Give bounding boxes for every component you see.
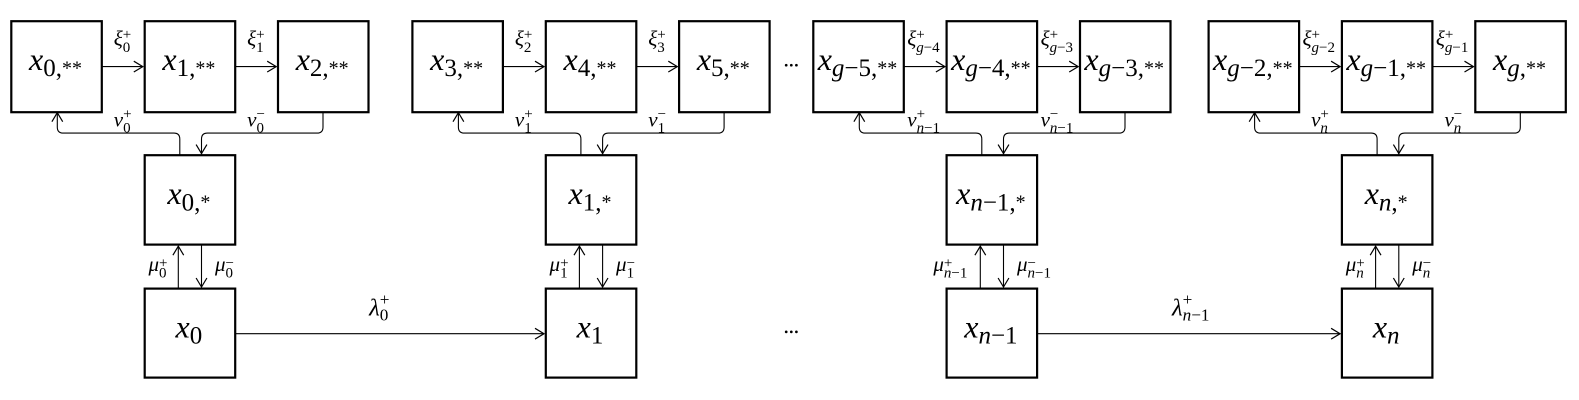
svg-text:ξ: ξ <box>648 27 657 51</box>
svg-text:μ: μ <box>615 252 627 276</box>
svg-text:g−4: g−4 <box>916 40 940 56</box>
svg-text:0: 0 <box>380 306 389 325</box>
svg-text:1: 1 <box>524 121 532 137</box>
svg-text:x2,**: x2,** <box>295 41 349 82</box>
svg-text:ξ: ξ <box>515 27 524 51</box>
svg-text:xn−1: xn−1 <box>963 309 1017 350</box>
svg-text:0: 0 <box>123 121 131 137</box>
svg-text:n−1: n−1 <box>1050 121 1073 137</box>
svg-text:0: 0 <box>226 266 234 282</box>
svg-text:0: 0 <box>123 40 131 56</box>
svg-text:μ: μ <box>214 252 226 276</box>
svg-text:μ: μ <box>147 252 159 276</box>
svg-text:x1,**: x1,** <box>161 41 215 82</box>
svg-text:x0,*: x0,* <box>166 175 210 216</box>
svg-text:xg−2,**: xg−2,** <box>1212 41 1293 82</box>
svg-text:n: n <box>1454 121 1462 137</box>
svg-text:ξ: ξ <box>1303 27 1312 51</box>
svg-text:μ: μ <box>1016 252 1028 276</box>
svg-text:xg−1,**: xg−1,** <box>1345 41 1426 82</box>
svg-text:λ: λ <box>1171 294 1183 321</box>
svg-text:xg−3,**: xg−3,** <box>1083 41 1164 82</box>
svg-text:1: 1 <box>256 40 264 56</box>
svg-text:g−1: g−1 <box>1445 40 1468 56</box>
svg-text:xn−1,*: xn−1,* <box>955 175 1026 216</box>
svg-text:x0: x0 <box>175 309 203 350</box>
svg-text:x5,**: x5,** <box>696 41 750 82</box>
svg-text:λ: λ <box>368 294 380 321</box>
svg-text:xn: xn <box>1372 309 1400 350</box>
svg-text:0: 0 <box>257 121 265 137</box>
svg-text:ξ: ξ <box>1041 27 1050 51</box>
svg-text:n−1: n−1 <box>917 121 940 137</box>
svg-text:x3,**: x3,** <box>429 41 483 82</box>
svg-text:xn,*: xn,* <box>1364 175 1408 216</box>
svg-text:g−3: g−3 <box>1050 40 1073 56</box>
svg-text:ξ: ξ <box>247 27 256 51</box>
svg-text:ξ: ξ <box>114 27 123 51</box>
svg-text:n: n <box>1423 266 1431 282</box>
svg-text:3: 3 <box>657 40 665 56</box>
svg-text:x4,**: x4,** <box>563 41 617 82</box>
svg-text:1: 1 <box>560 266 568 282</box>
svg-text:μ: μ <box>1345 252 1357 276</box>
svg-text:2: 2 <box>524 40 532 56</box>
svg-text:n: n <box>1320 121 1328 137</box>
svg-text:0: 0 <box>159 266 167 282</box>
svg-text:x0,**: x0,** <box>28 41 82 82</box>
svg-text:μ: μ <box>549 252 561 276</box>
svg-text:n−1: n−1 <box>944 266 967 282</box>
svg-text:μ: μ <box>932 252 944 276</box>
svg-text:ξ: ξ <box>907 27 916 51</box>
svg-text:x1,*: x1,* <box>568 175 612 216</box>
svg-text:μ: μ <box>1411 252 1423 276</box>
svg-text:x1: x1 <box>576 309 604 350</box>
svg-text:xg−5,**: xg−5,** <box>817 41 898 82</box>
svg-text:n−1: n−1 <box>1028 266 1051 282</box>
svg-text:n: n <box>1356 266 1364 282</box>
svg-text:n−1: n−1 <box>1183 306 1210 325</box>
svg-text:xg−4,**: xg−4,** <box>950 41 1031 82</box>
svg-text:1: 1 <box>658 121 666 137</box>
svg-text:1: 1 <box>627 266 635 282</box>
svg-text:xg,**: xg,** <box>1492 41 1546 82</box>
svg-text:ξ: ξ <box>1436 27 1445 51</box>
svg-text:g−2: g−2 <box>1312 40 1335 56</box>
